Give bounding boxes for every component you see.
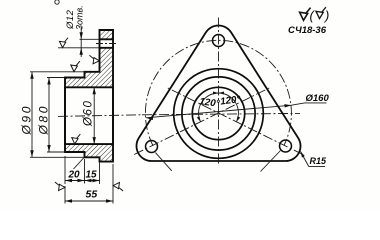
- svg-text:Ø60: Ø60: [83, 99, 95, 127]
- finish mark left face (bottom): [55, 182, 65, 191]
- hatch flange above hole (section): [100, 30, 114, 39]
- hatch mid-hub top (section): [85, 72, 100, 88]
- dimension Ø160 diameter line with arrows: [146, 103, 327, 118]
- svg-text:Ø80: Ø80: [37, 104, 51, 135]
- bolt hole bottom-left: [146, 141, 158, 153]
- hatch flange bottom (section): [100, 144, 114, 162]
- svg-text:СЧ18-36: СЧ18-36: [288, 25, 327, 36]
- artifact circle top-left: [55, 0, 59, 4]
- svg-text:20: 20: [68, 170, 81, 181]
- dimension Ø60: [93, 87, 95, 144]
- dimension R15 leader and text: [301, 152, 326, 167]
- central circle Ø80: [182, 77, 255, 150]
- bolt hole top: [213, 35, 225, 47]
- svg-text:R15: R15: [310, 156, 328, 166]
- bolt hole bottom-right: [280, 140, 292, 152]
- angle dimension arc 120 (left): [199, 93, 219, 122]
- svg-text:15: 15: [86, 170, 98, 181]
- finish mark right face (bottom): [113, 182, 123, 191]
- axis centerline (both views): [58, 115, 142, 117]
- dimension Ø80: [47, 78, 65, 153]
- hatch left-hub bottom (section): [65, 144, 85, 152]
- bolt-hole centerline (left view): [96, 43, 118, 45]
- spoke centerline to bottom-right hole: [167, 88, 302, 155]
- dimension 55: [65, 164, 113, 204]
- svg-text:Ø90: Ø90: [20, 104, 34, 135]
- hatch flange below hole (section): [100, 48, 114, 88]
- central circle Ø90: [174, 69, 264, 159]
- svg-text:3отв.: 3отв.: [75, 5, 85, 30]
- bore Ø60 edges: [65, 87, 113, 144]
- svg-text:55: 55: [86, 189, 98, 201]
- diagonal line from bottom-left hole: [155, 153, 171, 171]
- flange bolt-hole Ø12 edges: [100, 39, 114, 48]
- svg-text:Ø160: Ø160: [306, 93, 330, 104]
- surface finish symbol (general): [300, 8, 311, 21]
- dimension Ø12 3 holes: [58, 27, 100, 57]
- finish mark on Ø12 hole: [59, 38, 68, 48]
- angle dimension arc 120 (right): [219, 93, 239, 122]
- dimension Ø90: [30, 72, 85, 158]
- finish mark on Ø90 top: [71, 61, 80, 71]
- bolt circle Ø160 (centers): [145, 40, 291, 145]
- central bore circle Ø60: [192, 87, 244, 139]
- vertical spoke centerline: [218, 18, 220, 167]
- hatch mid-hub bottom (section): [85, 144, 100, 157]
- triangular flange outline with rounded corners: [136, 25, 300, 161]
- finish mark on flange left face: [89, 55, 99, 64]
- spoke centerline to bottom-left hole: [134, 88, 269, 155]
- diagonal line from bottom-right hole: [261, 151, 281, 172]
- hatch left-hub top (section): [65, 78, 85, 88]
- dimension 20 / 15: [65, 156, 100, 184]
- left view outline (sectioned flanged hub): [65, 30, 113, 162]
- finish mark in bore: [72, 134, 81, 144]
